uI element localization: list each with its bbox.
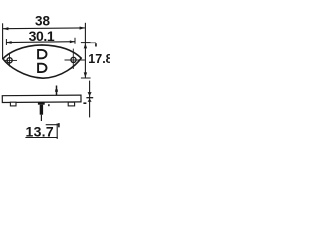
right standoff foot bbox=[68, 102, 74, 106]
extension line right (38) merged with 17.8 dim line bbox=[84, 23, 86, 78]
svg-text:17.8: 17.8 bbox=[88, 52, 110, 66]
stud collar bbox=[38, 102, 45, 105]
arrow right of dim 30.1 bbox=[70, 40, 75, 43]
centerline V of right hole bbox=[72, 49, 74, 69]
stud pin bbox=[40, 105, 43, 115]
mounting hole left bbox=[7, 58, 12, 63]
thickness dim line vertical bbox=[89, 81, 91, 118]
svg-text:38: 38 bbox=[35, 14, 51, 29]
small tick right of bar bottom bbox=[83, 102, 86, 104]
D-hole lower bbox=[38, 64, 46, 72]
tick left of dim 30.1 bbox=[5, 39, 7, 45]
13.7 underline dim line bbox=[25, 137, 57, 139]
13.7 spur line bbox=[46, 124, 59, 126]
centerline H of left hole bbox=[4, 59, 17, 61]
17.8 bottom extension tick bbox=[81, 77, 91, 79]
mounting hole right bbox=[71, 57, 76, 62]
artifact blob near 17.8 bbox=[95, 43, 97, 46]
17.8 top extension tick bbox=[81, 42, 91, 44]
thickness arrow down bbox=[88, 92, 92, 96]
left standoff foot bbox=[10, 102, 16, 106]
13.7 right extension vertical bbox=[56, 123, 58, 138]
background bbox=[0, 0, 110, 150]
17.8 top extension faint tail bbox=[91, 42, 96, 44]
extension line left (38) bbox=[2, 23, 4, 58]
arrow right of dim 38 bbox=[80, 27, 86, 30]
thickness crossbar bbox=[86, 97, 93, 99]
arrow up of dim 17.8 bbox=[84, 43, 87, 48]
thickness arrow up bbox=[88, 99, 92, 102]
arrow left of dim 30.1 bbox=[7, 41, 12, 44]
dim line 38 bbox=[3, 27, 85, 30]
stud extension line bbox=[40, 115, 42, 121]
plate outline (top view lens shape) bbox=[3, 45, 81, 78]
arrow down of dim 17.8 bbox=[84, 72, 87, 77]
tick right of dim 30.1 bbox=[74, 38, 76, 44]
centerline H of right hole bbox=[65, 59, 85, 61]
centerline V of left hole bbox=[9, 53, 11, 67]
arrow left of dim 38 bbox=[3, 27, 8, 30]
top terminal pin bbox=[56, 86, 58, 96]
13.7 spur end tick bbox=[58, 123, 60, 127]
top terminal blob bbox=[55, 89, 58, 92]
side view flange bar bbox=[2, 95, 81, 102]
speck artifact bbox=[48, 104, 50, 106]
dim line 30.1 bbox=[6, 41, 75, 44]
D-hole upper bbox=[38, 50, 46, 58]
